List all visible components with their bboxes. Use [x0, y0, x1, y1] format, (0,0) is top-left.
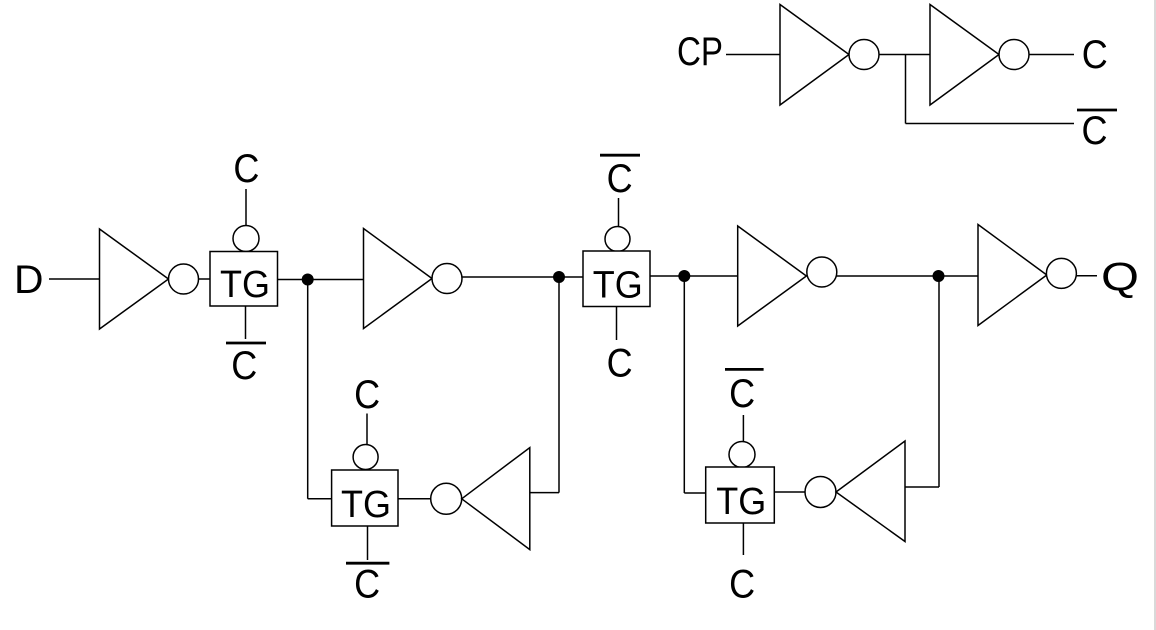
svg-text:Q: Q: [1101, 256, 1139, 300]
svg-text:C: C: [1082, 109, 1108, 153]
svg-text:C: C: [354, 563, 380, 607]
svg-text:C: C: [729, 372, 755, 416]
svg-text:TG: TG: [220, 264, 270, 306]
svg-text:C: C: [607, 157, 633, 201]
svg-text:C: C: [729, 563, 755, 607]
svg-text:D: D: [14, 258, 44, 302]
svg-text:C: C: [607, 341, 633, 385]
svg-text:C: C: [233, 147, 259, 191]
svg-text:TG: TG: [341, 484, 391, 526]
svg-text:C: C: [231, 344, 257, 388]
svg-text:CP: CP: [677, 30, 723, 74]
svg-text:TG: TG: [716, 481, 766, 523]
svg-text:TG: TG: [593, 265, 643, 307]
svg-text:C: C: [354, 373, 380, 417]
svg-text:C: C: [1082, 33, 1108, 77]
